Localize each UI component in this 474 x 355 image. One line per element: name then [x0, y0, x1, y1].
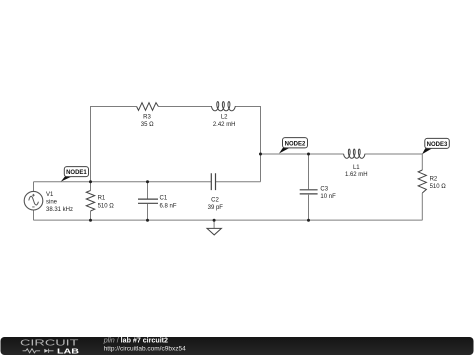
- node NODE2: [279, 138, 308, 154]
- svg-text:2.42 mH: 2.42 mH: [213, 122, 236, 128]
- footer logo CIRCUIT: [20, 338, 79, 348]
- junction dot C3 top: [307, 153, 310, 156]
- svg-text:C1: C1: [160, 196, 168, 202]
- wire: left vertical of top loop: [90, 106, 92, 182]
- svg-text:C3: C3: [320, 187, 328, 193]
- capacitor C1: [138, 182, 158, 221]
- capacitor C2: [211, 173, 215, 190]
- svg-text:L1: L1: [353, 165, 360, 171]
- label R3 value: [141, 115, 154, 129]
- resistor R2: [418, 154, 426, 220]
- svg-text:10 nF: 10 nF: [320, 194, 336, 200]
- svg-text:http://circuitlab.com/c9bxz54: http://circuitlab.com/c9bxz54: [104, 345, 186, 352]
- svg-text:V1: V1: [46, 192, 54, 198]
- label L2 value: [213, 115, 236, 129]
- wire: middle rail: [34, 181, 261, 183]
- footer url text: [104, 345, 186, 352]
- label C2 value: [208, 197, 224, 211]
- wire: bottom rail: [34, 219, 423, 221]
- footer logo LAB: [57, 347, 80, 355]
- junction dot R1 bottom: [89, 219, 92, 222]
- svg-text:39 pF: 39 pF: [208, 205, 224, 211]
- label L1 value: [345, 165, 368, 178]
- svg-text:NODE2: NODE2: [285, 141, 306, 147]
- svg-text:R2: R2: [430, 177, 438, 183]
- resistor R1: [86, 182, 94, 221]
- wire: NODE2 rail: [261, 153, 423, 155]
- inductor L2: [211, 102, 235, 111]
- junction dot R1 top: [89, 180, 92, 183]
- junction dot C3 bottom: [307, 219, 310, 222]
- svg-text:510 Ω: 510 Ω: [430, 184, 447, 190]
- voltage source V1: [24, 182, 43, 221]
- label R2 value: [430, 177, 447, 191]
- footer bar: [1, 337, 474, 355]
- svg-text:C2: C2: [211, 197, 219, 203]
- svg-text:L2: L2: [221, 115, 228, 121]
- wire: top loop horizontal segments: [91, 106, 261, 108]
- capacitor C3: [300, 154, 318, 220]
- svg-text:LAB: LAB: [57, 347, 80, 355]
- svg-text:sine: sine: [46, 200, 58, 206]
- svg-text:NODE3: NODE3: [427, 142, 448, 148]
- node NODE3: [422, 138, 449, 154]
- footer title text: [103, 337, 168, 345]
- label R1 value: [98, 196, 115, 210]
- ground: [207, 220, 221, 235]
- wire: right vertical of top loop: [260, 106, 262, 182]
- svg-text:38.31 kHz: 38.31 kHz: [46, 207, 73, 213]
- svg-text:R3: R3: [143, 115, 151, 121]
- label C3 value: [320, 187, 336, 201]
- junction dot C1 bottom: [146, 219, 149, 222]
- svg-text:35 Ω: 35 Ω: [141, 122, 154, 128]
- svg-text:510 Ω: 510 Ω: [98, 203, 115, 209]
- svg-text:R1: R1: [98, 196, 106, 202]
- resistor R3: [137, 103, 159, 111]
- label V1 value: [46, 192, 73, 213]
- svg-text:6.8 nF: 6.8 nF: [160, 203, 177, 209]
- inductor L1: [344, 149, 366, 158]
- svg-text:NODE1: NODE1: [66, 170, 87, 176]
- footer logo zigzag and diode: [23, 349, 54, 353]
- junction dot ground: [213, 219, 216, 222]
- junction dot node2 left: [259, 153, 262, 156]
- label C1 value: [160, 196, 177, 210]
- node NODE1: [61, 167, 89, 182]
- svg-text:plin / lab #7 circuit2: plin / lab #7 circuit2: [103, 337, 168, 345]
- junction dot C1 top: [146, 180, 149, 183]
- svg-text:1.62 mH: 1.62 mH: [345, 172, 368, 178]
